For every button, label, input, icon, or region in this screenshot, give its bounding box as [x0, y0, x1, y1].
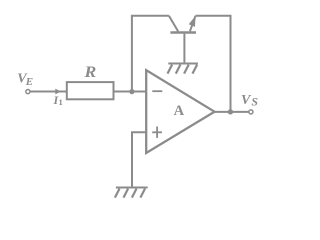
wire resistor to op-amp minus input: [114, 91, 146, 93]
transistor Q1 collector lead: [169, 16, 178, 32]
svg-text:E: E: [25, 76, 33, 88]
transistor Q1 base lead: [183, 34, 185, 63]
transistor Q1 emitter lead with arrow: [190, 16, 196, 31]
op-amp A triangle: [146, 70, 214, 153]
node VE input terminal: [26, 90, 30, 94]
transistor Q1 base bar: [170, 31, 196, 33]
node VS output terminal: [249, 110, 253, 114]
node junction input/feedback: [129, 89, 134, 94]
op-amp minus sign: [152, 90, 162, 92]
svg-text:A: A: [174, 103, 185, 119]
resistor R: [67, 82, 114, 99]
wire emitter to output node: [196, 16, 231, 112]
wire feedback up and over to transistor collector: [132, 16, 169, 92]
wire plus input to lower ground: [132, 132, 145, 186]
svg-text:1: 1: [59, 97, 63, 107]
label VE: [17, 71, 33, 88]
op-amp plus sign: [152, 127, 162, 138]
node junction output/feedback: [228, 109, 233, 114]
ground at op-amp plus input: [115, 188, 148, 198]
svg-text:S: S: [251, 95, 258, 109]
current arrow I1: [55, 89, 61, 95]
wire VE terminal to resistor: [30, 91, 66, 93]
label VS: [241, 93, 258, 109]
svg-text:R: R: [83, 64, 96, 81]
ground under transistor base: [168, 64, 198, 74]
label I1: [53, 93, 63, 107]
wire op-amp output to VS terminal: [215, 111, 249, 113]
